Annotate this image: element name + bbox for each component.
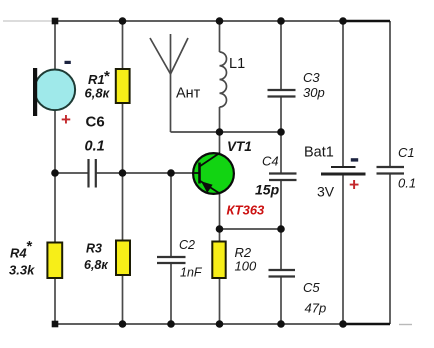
svg-text:L1: L1 <box>229 56 245 72</box>
svg-text:1nF: 1nF <box>180 266 203 280</box>
svg-text:R4: R4 <box>10 246 27 261</box>
svg-text:0.1: 0.1 <box>85 139 105 155</box>
svg-text:Ант: Ант <box>176 86 201 102</box>
svg-text:15p: 15p <box>255 182 280 198</box>
svg-text:C4: C4 <box>262 154 279 169</box>
svg-text:30p: 30p <box>303 85 325 100</box>
svg-text:100: 100 <box>235 259 257 274</box>
svg-text:C1: C1 <box>398 145 415 160</box>
svg-text:3.3k: 3.3k <box>9 263 35 278</box>
svg-text:0.1: 0.1 <box>398 176 416 191</box>
svg-text:C3: C3 <box>303 70 320 85</box>
svg-text:R3: R3 <box>86 242 102 256</box>
svg-text:+: + <box>349 175 359 195</box>
svg-text:*: * <box>104 68 110 85</box>
svg-text:6,8к: 6,8к <box>85 86 111 101</box>
svg-text:3V: 3V <box>317 184 335 200</box>
svg-text:КТ363: КТ363 <box>227 203 266 218</box>
svg-text:*: * <box>27 238 33 255</box>
svg-text:+: + <box>61 110 71 129</box>
svg-text:47p: 47p <box>305 301 327 316</box>
svg-text:VT1: VT1 <box>227 139 252 154</box>
svg-text:C5: C5 <box>303 280 320 295</box>
svg-text:C6: C6 <box>86 114 105 131</box>
svg-text:Bat1: Bat1 <box>304 145 334 161</box>
svg-text:6,8к: 6,8к <box>84 258 108 272</box>
svg-text:C2: C2 <box>179 238 195 252</box>
